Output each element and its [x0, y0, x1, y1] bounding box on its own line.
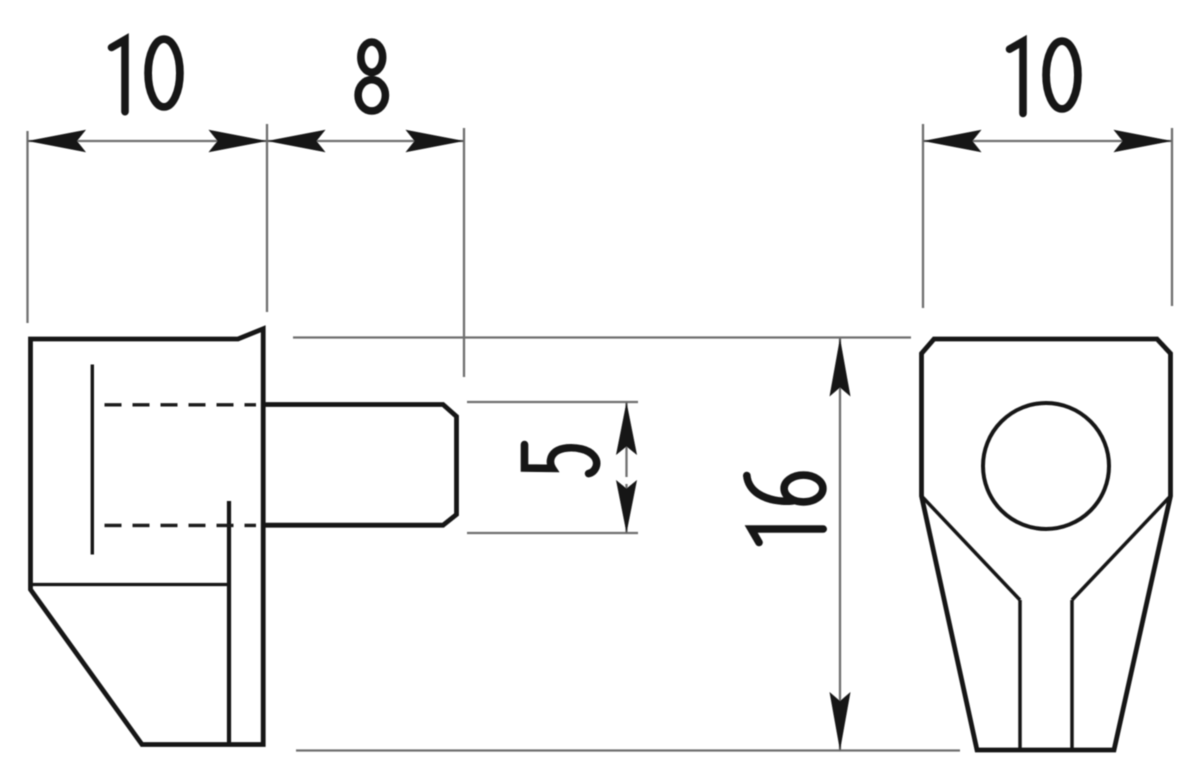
dimension text 16 (rotated) — [747, 475, 823, 542]
dimension text 10 (left) — [112, 39, 180, 112]
hidden hole dashed line top — [105, 403, 257, 406]
extension line right of right 10 dim — [1171, 128, 1173, 306]
arrow left of 10 dim — [28, 130, 87, 153]
dimension line 5 lower part — [625, 484, 627, 533]
dimension text 5 (rotated) — [525, 445, 597, 474]
dimension line 16 — [839, 338, 841, 750]
arrow bottom of 5 dim — [616, 480, 637, 533]
dimension line 8 — [267, 140, 464, 142]
internal short vertical line — [91, 365, 94, 555]
dimension line 10 left — [28, 140, 268, 142]
arrow right of right 10 dim — [1114, 130, 1173, 153]
inner right diagonal — [1072, 496, 1171, 600]
extension line top of 16 dim — [293, 336, 911, 338]
right view body outline — [922, 339, 1171, 750]
arrow left of right 10 dim — [923, 130, 982, 153]
inner right stem line — [1070, 600, 1074, 749]
extension line top of 5 dim — [467, 401, 638, 403]
arrow top of 5 dim — [616, 402, 637, 455]
arrow top of 16 dim — [830, 338, 851, 397]
left view body outline — [31, 329, 264, 745]
extension line between 10 and 8 dims — [266, 124, 268, 312]
internal vertical line (wedge face) — [227, 501, 231, 743]
hole circle — [983, 403, 1109, 529]
inner left stem line — [1018, 600, 1022, 749]
arrow left of 8 dim — [267, 130, 326, 153]
dimension line 10 right — [923, 140, 1172, 142]
extension line left of right 10 dim — [922, 124, 924, 308]
dimension line 5 upper part — [625, 402, 627, 477]
extension line left of 10 dim — [26, 131, 28, 323]
extension line right of 8 dim — [463, 128, 465, 377]
inner left diagonal — [922, 496, 1021, 600]
dimension text 10 (right) — [1010, 41, 1078, 113]
pin outline — [263, 405, 456, 526]
internal horizontal line (flange bottom) — [31, 583, 230, 586]
extension line bottom of 16 dim — [296, 749, 960, 751]
hidden hole dashed line bottom — [105, 524, 257, 527]
arrow right of 10 dim (at middle line) — [209, 130, 268, 153]
dimension text 8 — [358, 42, 385, 111]
arrow right of 8 dim — [406, 130, 465, 153]
arrow bottom of 16 dim — [830, 692, 851, 751]
extension line bottom of 5 dim — [467, 532, 638, 534]
